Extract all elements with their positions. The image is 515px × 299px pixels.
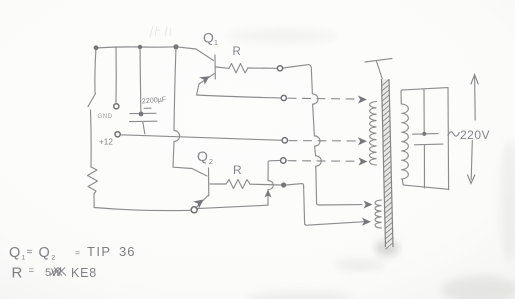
svg-text:1: 1: [214, 40, 218, 47]
svg-text:1: 1: [22, 255, 26, 262]
svg-text:220V: 220V: [460, 128, 490, 142]
svg-text:R: R: [233, 163, 242, 177]
svg-text:TIP: TIP: [87, 244, 111, 259]
svg-text:R: R: [233, 46, 241, 58]
svg-text:=: =: [29, 265, 35, 276]
svg-text:+12: +12: [99, 138, 113, 147]
svg-text:=: =: [27, 246, 33, 258]
svg-text:36: 36: [119, 244, 135, 259]
svg-text:R: R: [12, 265, 23, 282]
svg-text:Q: Q: [197, 148, 208, 164]
svg-text:=: =: [75, 248, 80, 258]
svg-text:KE8: KE8: [71, 266, 97, 280]
svg-text:Q: Q: [203, 30, 214, 46]
svg-text:2: 2: [52, 255, 56, 262]
svg-text:GND: GND: [98, 113, 113, 120]
svg-text:Q: Q: [9, 245, 20, 261]
svg-text:Q: Q: [39, 245, 50, 261]
svg-text:2: 2: [209, 159, 213, 166]
